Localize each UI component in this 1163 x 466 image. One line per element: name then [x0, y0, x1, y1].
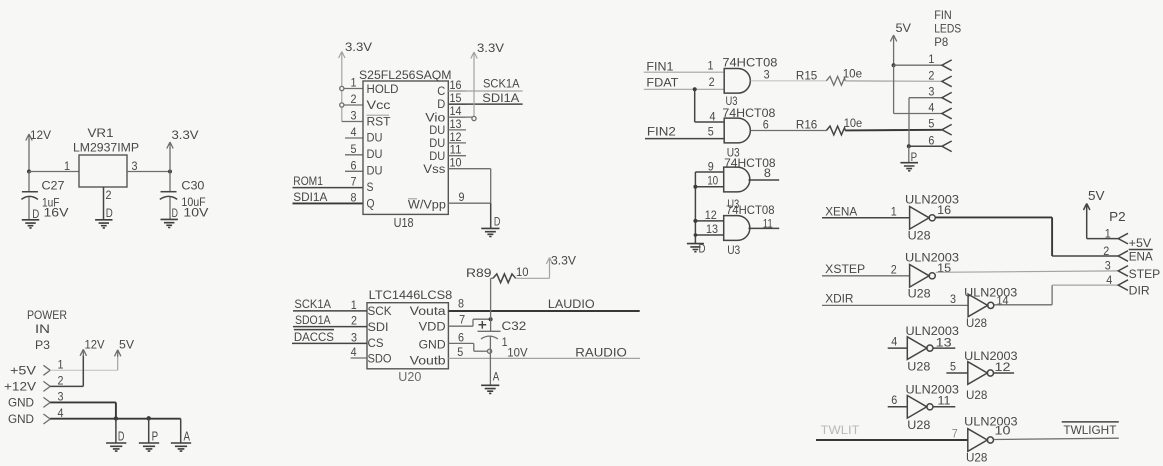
- svg-text:4: 4: [928, 103, 935, 115]
- svg-text:ULN2003: ULN2003: [964, 349, 1018, 363]
- svg-text:R15: R15: [796, 69, 818, 83]
- svg-text:FIN: FIN: [934, 8, 952, 22]
- svg-text:1: 1: [64, 161, 70, 173]
- U3d output pin 11: [748, 227, 779, 229]
- svg-text:1: 1: [351, 300, 357, 312]
- svg-text:DU: DU: [429, 151, 445, 163]
- svg-text:5V: 5V: [896, 21, 912, 35]
- and-gate U3a 74HCT08: [724, 68, 750, 93]
- capacitor C32 polarity +: [479, 321, 487, 329]
- svg-text:U28: U28: [907, 360, 930, 374]
- svg-text:2: 2: [928, 71, 934, 83]
- svg-text:GND: GND: [8, 396, 34, 410]
- U20 pin 7 stub and jog to VDD node: [448, 325, 473, 327]
- svg-text:U28: U28: [908, 229, 931, 243]
- connector P2 pin 2: [1118, 251, 1128, 262]
- wire ROM1 to U18 pin 7: [293, 187, 364, 189]
- wire XENA to U28 pin 1: [822, 217, 910, 219]
- ground D (C30): [161, 219, 178, 227]
- U28 pin 4 input stub: [888, 347, 908, 349]
- svg-text:3.3V: 3.3V: [551, 254, 576, 268]
- U18 pin 1 stub: [344, 88, 363, 90]
- connector P8 pin 2: [942, 76, 952, 87]
- svg-text:12: 12: [995, 362, 1011, 374]
- node FDAT junction: [693, 87, 697, 91]
- U18 pin 4 stub: [345, 137, 363, 139]
- svg-text:5: 5: [708, 126, 714, 138]
- wire U18 pin 9 W/Vpp to ground: [448, 202, 490, 204]
- svg-text:C: C: [437, 86, 445, 98]
- IC U18 S25FL256SAQM flash memory: [363, 81, 448, 214]
- svg-text:GND: GND: [8, 412, 34, 426]
- svg-text:DIR: DIR: [1129, 283, 1150, 297]
- svg-text:P: P: [152, 429, 159, 443]
- svg-text:12V: 12V: [85, 338, 105, 352]
- ground D (U18): [481, 228, 499, 236]
- svg-text:11: 11: [763, 219, 773, 231]
- power symbol 3.3V (U18 left): [339, 52, 345, 59]
- svg-text:R16: R16: [796, 117, 818, 131]
- svg-text:D: D: [118, 429, 125, 443]
- svg-text:XSTEP: XSTEP: [825, 262, 865, 276]
- svg-text:1: 1: [58, 360, 64, 372]
- connector P3 pin 1 symbol: [43, 365, 50, 375]
- wire U28g output to TWLIGHT: [994, 438, 1119, 439]
- and-gate U3d 74HCT08: [724, 216, 750, 241]
- U18 right pin stubs: [448, 90, 466, 92]
- svg-text:15: 15: [937, 263, 951, 275]
- node ground rail junction 2: [147, 416, 151, 420]
- node 3.3V output junction: [168, 170, 172, 174]
- inverter U28b ULN2003: [910, 265, 930, 288]
- svg-text:1: 1: [1105, 228, 1111, 240]
- wire U28b output to P2 pin 3 STEP: [936, 271, 1118, 272]
- svg-text:+12V: +12V: [4, 380, 36, 394]
- node ground rail junction 1: [114, 416, 118, 420]
- wire U18 pin 15 to SDI1A: [448, 103, 522, 105]
- svg-text:DU: DU: [367, 133, 383, 145]
- wire P3 pin2 to 12V: [50, 385, 83, 387]
- wire SCK1A to U20 pin 1: [293, 310, 367, 312]
- node pin6 ground junction: [907, 144, 911, 148]
- svg-text:DACCS: DACCS: [294, 330, 334, 344]
- connector P8 pin 4: [942, 108, 952, 119]
- wire 5V to P2 pin 1: [1086, 210, 1088, 239]
- wire VR1 pin 3 to 3.3V node: [127, 171, 170, 173]
- svg-text:ULN2003: ULN2003: [906, 383, 960, 397]
- svg-text:Vcc: Vcc: [367, 100, 391, 112]
- svg-text:RST: RST: [367, 117, 391, 129]
- svg-text:RAUDIO: RAUDIO: [575, 346, 627, 360]
- U18 pin 6 stub: [345, 170, 363, 172]
- ground A (analog, P3): [171, 443, 191, 451]
- power symbol 3.3V (U18 right): [471, 52, 477, 59]
- svg-text:C32: C32: [502, 319, 527, 333]
- svg-text:12V: 12V: [30, 128, 51, 142]
- svg-text:5V: 5V: [119, 338, 134, 352]
- wire to P8 pin 1: [894, 64, 942, 66]
- svg-text:DU: DU: [429, 138, 445, 150]
- VR1 pin 2 wire to ground: [103, 187, 105, 220]
- wire 3.3V to U18 pin 14: [473, 59, 475, 117]
- wire FIN2 to U3 pin 5: [645, 138, 724, 140]
- svg-text:W/Vpp: W/Vpp: [408, 200, 446, 212]
- ground A (U20/C32): [481, 385, 499, 393]
- wire C32 to ground A: [489, 336, 491, 385]
- svg-text:3: 3: [351, 111, 357, 123]
- power symbol 5V (P3): [115, 350, 121, 357]
- svg-text:ROM1: ROM1: [293, 174, 323, 188]
- svg-text:16V: 16V: [44, 206, 69, 220]
- U28f output stub: [934, 406, 956, 408]
- svg-text:Vss: Vss: [423, 164, 445, 176]
- connector P3 pin 2 symbol: [43, 381, 50, 391]
- connector P2 pin 1: [1118, 233, 1128, 244]
- wire DACCS to U20 pin 3: [292, 342, 367, 344]
- svg-text:3: 3: [1105, 260, 1111, 272]
- svg-text:1: 1: [928, 54, 934, 66]
- svg-text:16: 16: [450, 80, 462, 92]
- wire 5V rail to P8 pins 1 and 4: [893, 42, 895, 65]
- svg-text:TWLIGHT: TWLIGHT: [1063, 423, 1117, 437]
- svg-text:SDO1A: SDO1A: [295, 313, 331, 327]
- pin connection circle U18 pin 2: [340, 103, 344, 107]
- U3d pin 13 wire: [695, 234, 723, 236]
- svg-text:POWER: POWER: [27, 308, 67, 322]
- capacitor C30 10uF 10V: [169, 172, 171, 192]
- power symbol 5V (P2): [1084, 204, 1090, 211]
- wire U18 pin 10 Vss to ground: [448, 168, 490, 170]
- power symbol 5V (P8): [890, 35, 896, 42]
- svg-text:+5V: +5V: [10, 364, 36, 378]
- net TWLIGHT label (active low): [1062, 421, 1119, 423]
- wire XSTEP to U28 pin 2: [822, 275, 910, 277]
- svg-text:Vio: Vio: [425, 112, 445, 124]
- svg-text:74HCT08: 74HCT08: [722, 55, 777, 69]
- U3d pin 12 wire: [695, 220, 723, 222]
- svg-text:A: A: [184, 429, 191, 443]
- ground D (U3 inputs): [687, 244, 704, 252]
- connector P3 pin 3 symbol: [43, 397, 50, 407]
- svg-text:XENA: XENA: [825, 204, 857, 218]
- svg-text:TWLIT: TWLIT: [821, 423, 861, 437]
- svg-text:2: 2: [106, 190, 112, 202]
- wire TWLIT to U28 pin 7: [816, 439, 968, 441]
- ground D (digital, P3): [115, 419, 117, 443]
- svg-text:10e: 10e: [844, 116, 863, 130]
- U18 pin 14 stub: [448, 116, 472, 118]
- svg-text:C27: C27: [42, 179, 65, 193]
- svg-text:6: 6: [763, 120, 769, 132]
- svg-text:SCK1A: SCK1A: [483, 77, 520, 91]
- svg-text:STEP: STEP: [1129, 267, 1161, 281]
- ground rail wire (P3 pin 4): [50, 418, 181, 420]
- svg-text:1: 1: [891, 207, 897, 219]
- svg-text:1: 1: [502, 337, 508, 349]
- wire R15 to P8 pin 2: [845, 80, 942, 82]
- and-gate U3c 74HCT08: [724, 167, 750, 192]
- U28 pin 6 input stub: [888, 406, 908, 408]
- wire SDO1A to U20 pin 2: [293, 326, 367, 328]
- svg-text:U28: U28: [907, 418, 930, 432]
- ground D (C27): [22, 220, 39, 228]
- svg-text:8: 8: [458, 299, 464, 311]
- svg-text:10: 10: [516, 267, 529, 279]
- svg-text:SCK: SCK: [368, 306, 392, 318]
- svg-text:4: 4: [351, 347, 358, 359]
- U28d output stub: [934, 347, 956, 349]
- svg-text:11: 11: [938, 396, 951, 408]
- power symbol 3.3V (regulator output): [167, 142, 173, 149]
- svg-text:14: 14: [997, 296, 1010, 308]
- svg-text:GND: GND: [419, 340, 446, 352]
- wire SDI1A to U18 pin 8: [293, 202, 364, 204]
- inverter U28e ULN2003: [968, 362, 988, 385]
- pin connection circle U18 pin 1: [340, 86, 344, 90]
- wire P8 pin 3 to ground: [909, 97, 942, 99]
- U28 pin 5 input stub: [946, 372, 967, 374]
- svg-text:LM2937IMP: LM2937IMP: [73, 141, 139, 155]
- svg-text:VDD: VDD: [419, 322, 446, 334]
- wire XDIR to U28 pin 3: [822, 304, 968, 306]
- wire 5V rail down to pin 4: [893, 65, 895, 113]
- svg-text:S: S: [367, 182, 374, 194]
- wire VDD rail vertical: [490, 278, 492, 331]
- U20 pin 6 GND stub and jog: [448, 342, 473, 344]
- svg-text:P: P: [911, 150, 918, 164]
- svg-text:U20: U20: [398, 370, 421, 384]
- svg-text:+5V: +5V: [1129, 236, 1152, 250]
- svg-text:2: 2: [891, 265, 897, 277]
- svg-text:10: 10: [995, 426, 1011, 438]
- svg-text:SDO: SDO: [368, 354, 392, 366]
- inverter U28a ULN2003: [910, 207, 930, 230]
- svg-text:4: 4: [891, 337, 898, 349]
- svg-text:FIN1: FIN1: [646, 60, 673, 74]
- svg-text:13: 13: [450, 119, 462, 131]
- svg-text:FDAT: FDAT: [646, 76, 679, 90]
- svg-text:15: 15: [450, 93, 462, 105]
- net DACCS label (active low): [294, 329, 334, 331]
- svg-text:3.3V: 3.3V: [345, 40, 372, 54]
- U18 pin 2 stub: [344, 104, 363, 106]
- svg-text:P8: P8: [934, 35, 948, 49]
- connector P8 pin 5: [942, 124, 952, 135]
- svg-text:5: 5: [457, 347, 463, 359]
- svg-text:HOLD: HOLD: [367, 84, 399, 96]
- svg-text:10V: 10V: [507, 346, 527, 360]
- connector P3 pin 4 symbol: [43, 414, 50, 424]
- wire U28c output to P2 pin 4 DIR: [994, 304, 1052, 306]
- svg-text:D: D: [106, 206, 113, 220]
- pin connection circle U18 pin 14: [472, 116, 476, 120]
- node rail junction pin10: [693, 185, 697, 189]
- wire U20 pin 5 Voutb to RAUDIO: [448, 357, 640, 359]
- net ENA label (active low): [1129, 249, 1153, 251]
- svg-text:DU: DU: [429, 125, 445, 137]
- svg-text:A: A: [493, 369, 500, 383]
- svg-text:ENA: ENA: [1129, 249, 1153, 263]
- IC U20 LTC1446LCS8 DAC: [367, 303, 448, 369]
- svg-text:11: 11: [450, 145, 462, 157]
- inverter U28f ULN2003: [907, 396, 927, 419]
- svg-text:U28: U28: [966, 316, 987, 330]
- svg-text:SCK1A: SCK1A: [294, 297, 331, 311]
- wire rail to ground A: [180, 419, 182, 443]
- svg-text:D: D: [699, 241, 706, 255]
- svg-text:6: 6: [928, 135, 934, 147]
- node 12V input junction: [27, 170, 31, 174]
- power symbol 3.3V (R89): [546, 258, 552, 265]
- svg-text:4: 4: [710, 112, 717, 124]
- capacitor C27 1uF 16V: [28, 172, 30, 192]
- svg-text:D: D: [172, 206, 179, 220]
- svg-text:10: 10: [707, 175, 718, 187]
- U3c pin 9 wire: [695, 171, 723, 173]
- svg-text:13: 13: [706, 224, 718, 236]
- svg-text:CS: CS: [368, 338, 384, 350]
- wire 3.3V rail to U18 pins 1-3: [341, 58, 343, 122]
- svg-text:IN: IN: [35, 322, 50, 336]
- svg-text:3: 3: [928, 87, 934, 99]
- inverter U28g ULN2003: [968, 429, 988, 452]
- wire FDAT branch to U3 pin 4: [694, 89, 696, 122]
- wire U18 pin 16 to SCK1A: [448, 90, 522, 92]
- svg-text:R89: R89: [466, 266, 492, 280]
- svg-text:74HCT08: 74HCT08: [726, 203, 775, 217]
- svg-text:C30: C30: [181, 179, 204, 193]
- wire U20 pin 8 Vouta to LAUDIO: [448, 310, 639, 312]
- wire gate input rail (pins 9-13): [694, 172, 696, 243]
- inverter U28d ULN2003: [907, 337, 927, 360]
- svg-text:16: 16: [937, 205, 951, 217]
- pin connection circle (GND to rail): [488, 349, 492, 353]
- svg-text:D: D: [437, 99, 445, 111]
- svg-text:10V: 10V: [183, 206, 208, 220]
- svg-text:U28: U28: [966, 451, 988, 465]
- svg-text:5: 5: [928, 119, 934, 131]
- wire U28a output to P2 pin 2: [936, 216, 1052, 218]
- inverter U28c ULN2003: [968, 294, 988, 317]
- svg-text:LEDS: LEDS: [934, 22, 961, 36]
- svg-text:74HCT08: 74HCT08: [722, 106, 775, 120]
- svg-text:VR1: VR1: [88, 126, 114, 140]
- wire P8 pin 6 to ground junction: [909, 145, 942, 147]
- ground P (power, P3): [148, 418, 150, 443]
- svg-text:1: 1: [351, 78, 357, 90]
- svg-text:12: 12: [450, 132, 462, 144]
- U18 pin 5 stub: [345, 154, 363, 156]
- wire P3 pin1 to 5V: [50, 369, 118, 371]
- U3c output pin 8: [748, 179, 779, 181]
- power symbol 12V (input rail): [26, 134, 32, 141]
- and-gate U3b 74HCT08: [724, 118, 750, 143]
- svg-text:3: 3: [950, 294, 956, 306]
- svg-text:ULN2003: ULN2003: [964, 285, 1017, 299]
- wire 12V to VR1 pin 1: [29, 171, 79, 173]
- svg-text:S25FL256SAQM: S25FL256SAQM: [359, 68, 452, 82]
- svg-text:SDI1A: SDI1A: [482, 91, 519, 105]
- wire U3a output to R15: [751, 80, 827, 82]
- svg-text:U28: U28: [966, 388, 988, 402]
- svg-text:2: 2: [351, 94, 357, 106]
- svg-text:6: 6: [458, 332, 464, 344]
- svg-text:3.3V: 3.3V: [477, 41, 504, 55]
- U3c pin 10 wire: [695, 186, 723, 188]
- ground D (VR1 pin 2): [95, 220, 112, 228]
- wire U3b output to R16: [751, 130, 827, 132]
- svg-text:4: 4: [351, 127, 358, 139]
- svg-text:P3: P3: [35, 338, 50, 352]
- svg-text:5: 5: [950, 362, 956, 374]
- connector P2 pin 3: [1118, 266, 1128, 277]
- svg-text:U3: U3: [727, 245, 740, 257]
- svg-text:10: 10: [450, 158, 462, 170]
- svg-text:7: 7: [351, 177, 357, 189]
- svg-text:9: 9: [459, 192, 465, 204]
- svg-text:D: D: [32, 207, 39, 221]
- svg-text:U28: U28: [908, 287, 931, 301]
- svg-text:8: 8: [764, 168, 771, 180]
- svg-text:2: 2: [1103, 246, 1109, 258]
- svg-text:2: 2: [709, 77, 715, 89]
- svg-text:FIN2: FIN2: [647, 124, 676, 138]
- svg-text:Voutb: Voutb: [410, 356, 446, 368]
- U20 pin 4 stub: [351, 357, 367, 359]
- connector P8 pin 3: [942, 92, 952, 103]
- svg-text:U18: U18: [394, 216, 414, 230]
- svg-text:5: 5: [351, 144, 357, 156]
- svg-text:3.3V: 3.3V: [172, 128, 199, 142]
- svg-text:6: 6: [891, 395, 897, 407]
- svg-text:6: 6: [351, 160, 357, 172]
- svg-text:3: 3: [764, 70, 770, 82]
- wire R89 to 3.3V: [516, 277, 550, 279]
- svg-text:Q: Q: [367, 199, 375, 211]
- node rail junction pin13: [694, 233, 698, 237]
- node rail junction pin12: [693, 219, 697, 223]
- capacitor C32 1uF 10V: [478, 330, 501, 332]
- connector P8 pin 6: [942, 141, 952, 152]
- power symbol 12V (P3): [80, 349, 86, 356]
- svg-text:LTC1446LCS8: LTC1446LCS8: [369, 288, 453, 302]
- svg-text:DU: DU: [367, 165, 383, 177]
- svg-text:10e: 10e: [843, 67, 863, 81]
- svg-text:14: 14: [450, 106, 463, 118]
- voltage regulator VR1 LM2937IMP: [79, 155, 127, 187]
- node 5V junction (pin1): [892, 63, 896, 67]
- svg-text:D: D: [494, 214, 501, 228]
- svg-text:4: 4: [1106, 275, 1113, 287]
- svg-text:SDI: SDI: [368, 322, 389, 334]
- svg-text:LAUDIO: LAUDIO: [548, 297, 595, 311]
- svg-text:1: 1: [708, 61, 714, 73]
- wire FDAT to U3 pin 2: [644, 88, 724, 90]
- svg-text:XDIR: XDIR: [825, 292, 854, 306]
- wire P3 pin3 to ground rail: [50, 401, 116, 403]
- connector P8 pin 1: [942, 60, 952, 71]
- svg-text:5V: 5V: [1088, 188, 1105, 203]
- svg-text:Vouta: Vouta: [410, 306, 447, 318]
- svg-text:3: 3: [351, 332, 357, 344]
- svg-text:7: 7: [459, 314, 465, 326]
- U28e output stub: [994, 372, 1014, 374]
- svg-text:9: 9: [708, 162, 714, 174]
- node VDD junction (R89/C32): [489, 317, 493, 321]
- svg-text:DU: DU: [367, 149, 383, 161]
- svg-text:7: 7: [952, 429, 958, 441]
- connector P2 pin 4: [1118, 280, 1128, 291]
